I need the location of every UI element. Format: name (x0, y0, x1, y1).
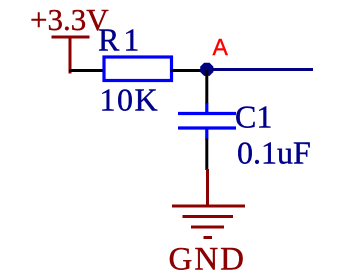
capacitor C1 bottom lead (205, 128, 208, 140)
ground stem (206, 169, 209, 206)
ground bar 4 (204, 236, 213, 239)
svg-text:10K: 10K (100, 82, 160, 118)
node A junction dot (200, 63, 213, 76)
resistor R1 (104, 57, 172, 81)
svg-text:A: A (213, 34, 229, 60)
capacitor C1 top lead (205, 103, 208, 114)
wire R1 to node A (171, 69, 206, 72)
wire node A to right (207, 68, 313, 71)
wire C1 to ground (205, 139, 208, 171)
power symbol stem (69, 36, 72, 74)
svg-text:GND: GND (169, 242, 247, 278)
capacitor C1 bottom plate (178, 126, 236, 129)
svg-text:R1: R1 (98, 22, 143, 58)
wire node A down to C1 (205, 70, 208, 104)
svg-text:0.1uF: 0.1uF (237, 135, 311, 171)
svg-text:C1: C1 (235, 99, 272, 135)
ground bar 3 (191, 226, 224, 229)
power symbol +3.3V bar (52, 36, 90, 39)
capacitor C1 top plate (178, 112, 236, 115)
ground bar 1 (172, 205, 245, 208)
wire power to R1 (69, 69, 105, 72)
ground bar 2 (183, 215, 234, 218)
